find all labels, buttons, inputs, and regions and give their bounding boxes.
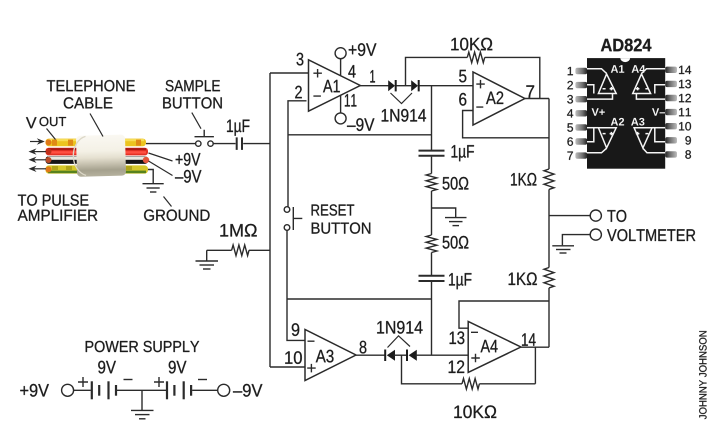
resistor 50 ohm upper [426,174,468,191]
arrow left wire 2 [33,151,46,153]
ground cable [143,184,164,192]
diode D4 1N914 [407,350,417,362]
terminal TO circle [549,210,626,222]
wire to A1 pin3 [270,72,309,74]
label 9V battery1 [98,361,116,374]
label POWER SUPPLY [86,341,200,352]
pin 11 label [345,94,357,106]
diode D3 1N914 [385,350,395,362]
IC U1 AD824 [601,39,652,52]
resistor 10K feedback A2 [406,38,540,99]
resistor 10K A4 feedback [402,355,536,418]
plus sign battery1 [78,377,88,387]
telephone cable wire black [46,156,150,164]
telephone cable wire red [46,148,149,156]
wire between diodes [396,85,411,87]
terminal -9V circle [218,384,230,396]
wire chain vertical top [431,86,433,150]
wire A4 output [521,346,549,348]
+9V supply terminal A1 [335,43,376,75]
wire A1 output [360,85,389,87]
IC internal amp A3 [634,128,665,153]
IC internal amp A4 [633,69,666,99]
resistor 1K lower [509,268,554,288]
op-amp A4 [468,321,521,372]
wire battery1 to battery2 [117,389,166,391]
pin 5 label [459,70,466,83]
wire cap to 50 ohm [431,157,433,174]
diode D1 1N914 [388,80,396,91]
label GROUND [144,210,210,221]
wire reset down to A3 pin9 [287,230,305,340]
wire output bus down [548,99,550,170]
wire ground tap [432,208,456,217]
pin 9 label [292,323,299,336]
wire bus 1K2 to A4 out [548,301,550,347]
pin 6 label [459,93,466,106]
IC pin stubs left [575,68,587,159]
pointer +9V wire [149,153,173,161]
arrow left wire 3 [33,159,46,161]
wire battery2 to -9V [192,389,218,391]
wire 1K2 to junction [548,288,550,301]
pin 4 label [348,65,355,77]
capacitor 1uF lower [419,273,472,289]
credit JOHNNY JOHNSON [699,331,706,419]
op-amp A1 [309,60,361,111]
diode D2 1N914 [411,80,419,91]
pointer telephone cable label [90,114,103,137]
wire 50ohm to cap2 [431,253,433,276]
label TO PULSE AMPLIFIER [18,194,89,205]
pin 7 label [526,85,534,97]
minus sign battery1 [124,379,133,381]
IC pin numbers right 14-8 [679,66,691,159]
label RESET BUTTON [312,204,355,215]
label -9V cable [175,170,201,183]
pin 3 label [297,53,304,66]
ground chain [445,218,467,226]
IC pin numbers left 1-7 [567,67,573,160]
node V OUT [26,117,37,128]
telephone cable wire yellow [46,139,147,147]
IC internal amp A1 [587,69,616,99]
op-amp A2 [473,72,525,125]
wire +9V to battery1 [74,389,91,391]
pin 8 label [360,341,367,354]
label 9V battery2 [169,361,187,374]
IC pin stubs right [665,67,677,158]
pin 12 label [449,360,465,373]
wire to A3 pin10 [270,366,305,368]
cable jacket sheath [73,134,126,176]
battery B2 [167,381,191,399]
wire pin2 to chain [288,134,432,136]
pin 14 label [522,333,536,345]
wire button to capacitor [213,143,235,145]
terminal +9V circle [62,384,74,396]
wire cap2 down to diode line [431,282,433,356]
capacitor 1uF input [227,120,249,150]
wire diode to A2 [419,85,473,87]
arrow left wire 4 [33,168,46,170]
label +9V cable [176,153,201,166]
IC notch [620,58,630,62]
IC body [587,58,665,169]
resistor 1M [207,224,270,256]
wire A4 out down to 10K [534,347,536,384]
pin 1 label [370,70,375,82]
terminal voltmeter circle with ground [552,229,695,253]
capacitor 1uF upper [419,145,474,161]
label TELEPHONE CABLE [47,80,135,91]
sample button S1 [192,113,214,147]
wire reset node to chain bottom [287,298,432,300]
wire left vertical bus [269,73,271,367]
op-amp A3 [305,330,356,381]
pointer v-out label [47,129,56,140]
label SAMPLE BUTTON [166,80,220,91]
wire cable green to ground [148,170,153,184]
wire diode to A4 [416,354,469,356]
resistor 1K upper [511,169,554,189]
wire A2 output [525,98,549,100]
wire A3 output [356,354,385,356]
wire A4 pin13 [459,301,549,328]
minus sign battery2 [198,379,207,381]
IC internal amp A2 [587,128,616,153]
IC internal labels [592,65,665,125]
ground 1M [196,250,219,269]
plus sign battery2 [154,377,164,387]
pin 2 label [295,86,302,99]
arrow right into wire 1 [30,141,43,143]
pointer -9V wire [149,161,173,176]
telephone cable wire green-yellow [46,165,149,173]
wire cable to sample button [146,143,195,145]
label -9V power [233,384,262,397]
pin 10 label [285,351,302,364]
reset button S2 [284,207,302,231]
resistor 50 ohm lower [426,235,468,252]
ground power supply [131,390,154,419]
wire A1 pin2 input [288,101,307,207]
label 1N914 bottom with bracket [377,321,422,348]
label 1N914 top with bracket [382,93,426,122]
label +9V power [20,384,49,397]
wire 50ohm to 50ohm [431,191,433,235]
wire between diodes bottom [394,354,407,356]
pointer ground label [164,197,172,207]
wire A2 pin6 to output [463,111,549,138]
wire 1K to voltmeter node [548,189,550,267]
-9V supply terminal A1 [335,95,374,131]
wire capacitor to node [243,143,270,145]
battery B1 [92,381,116,399]
pin 13 label [450,331,465,344]
